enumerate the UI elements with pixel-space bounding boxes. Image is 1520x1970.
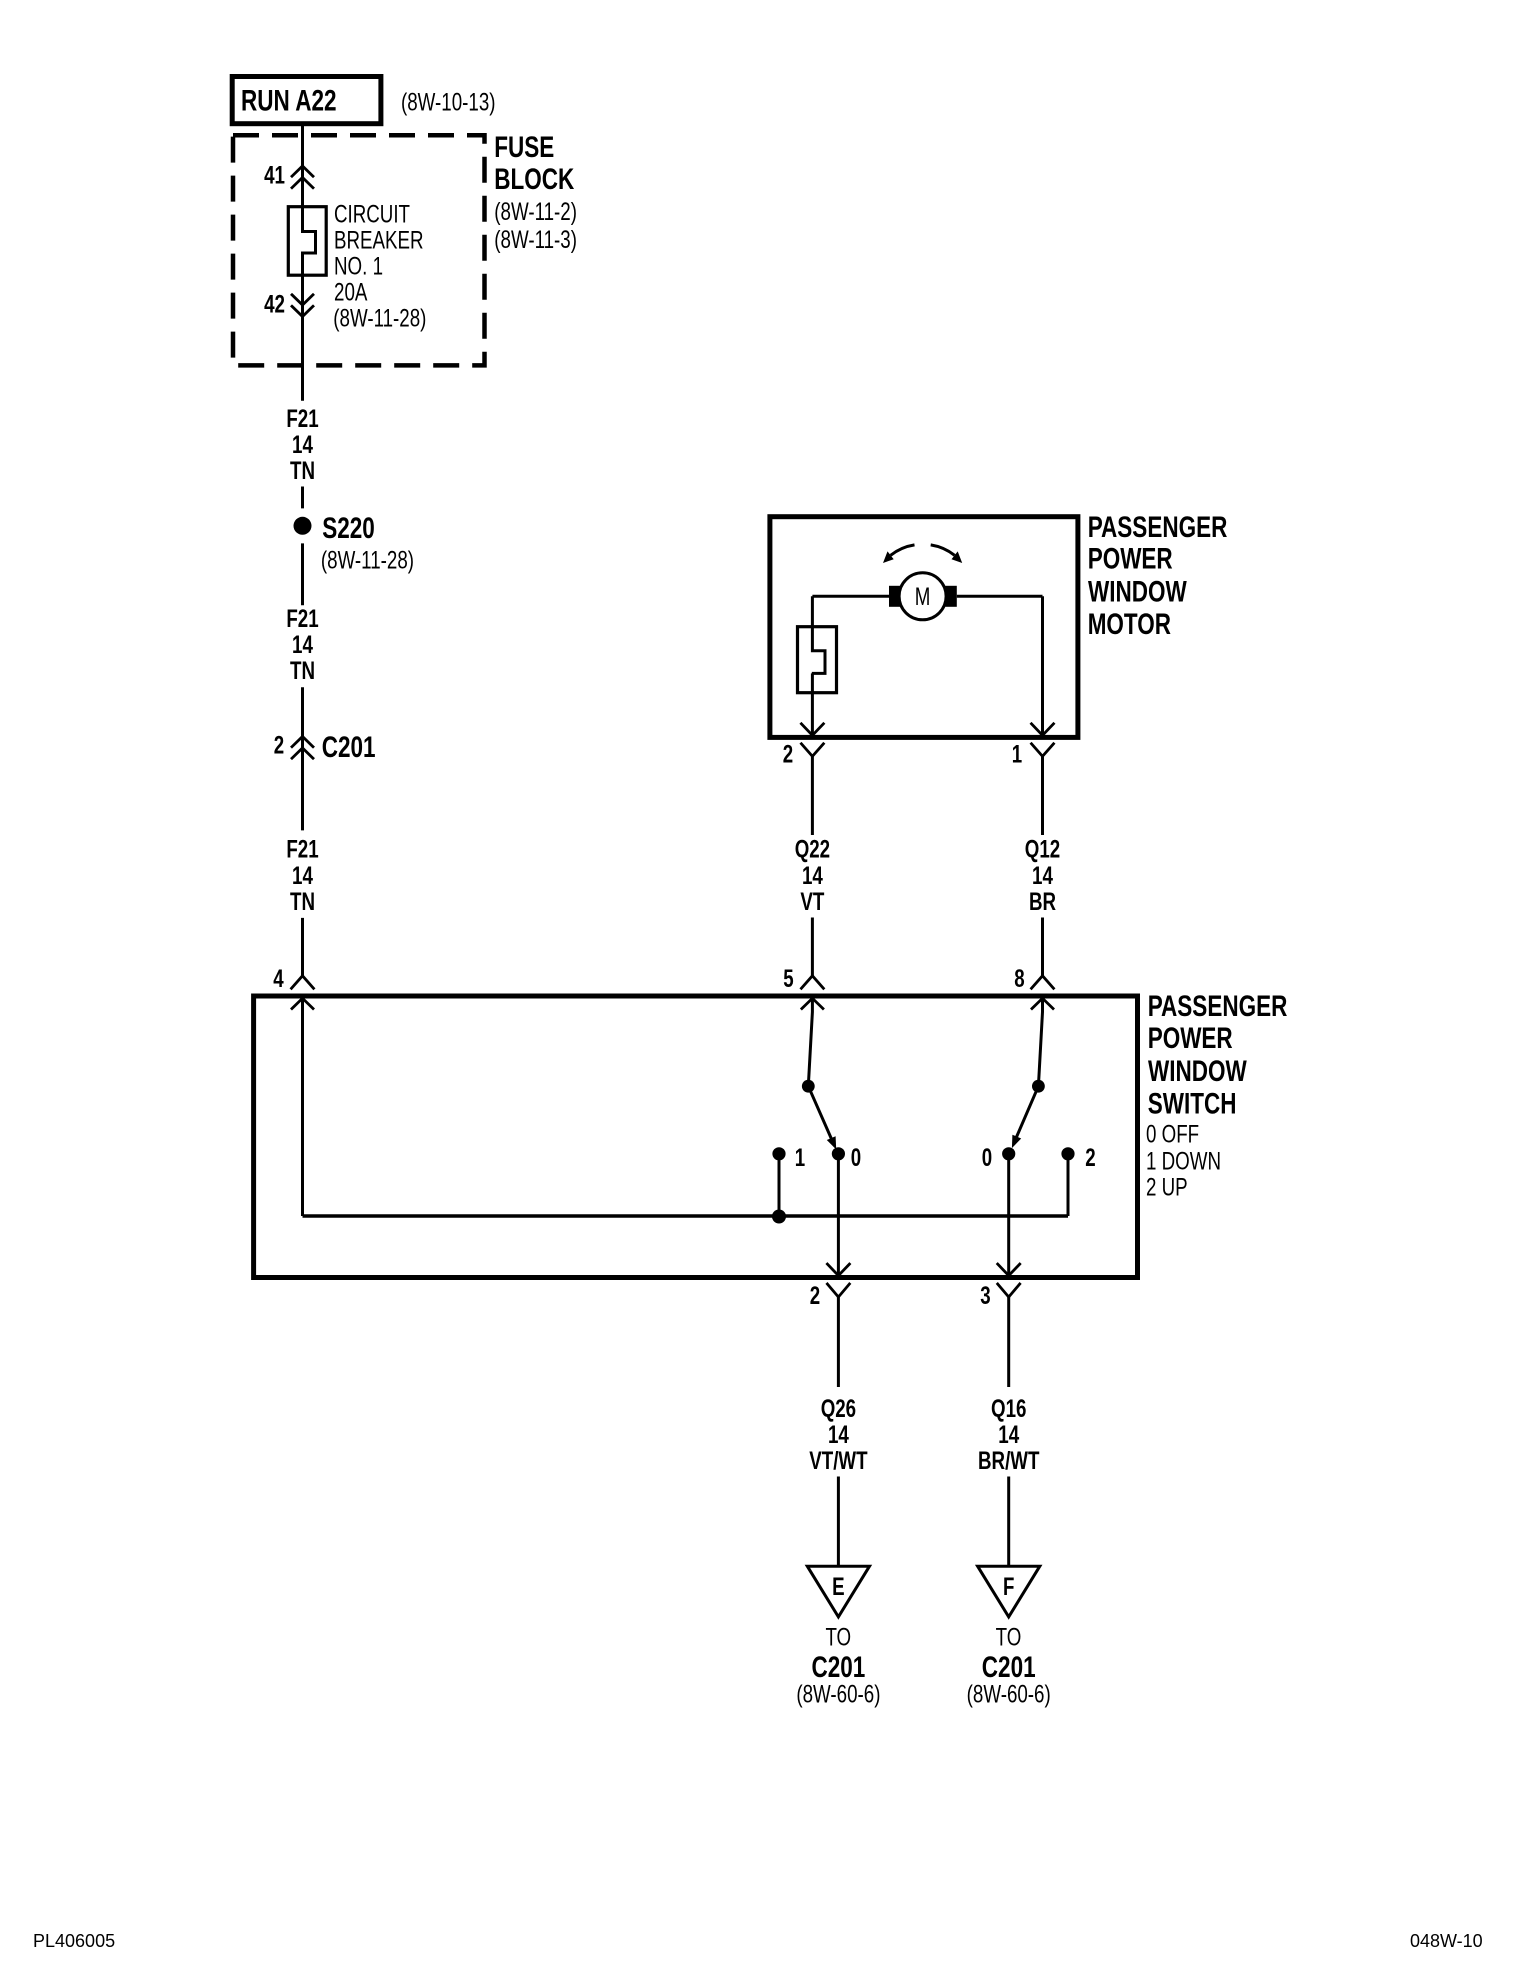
- svg-text:TO: TO: [825, 1624, 851, 1652]
- svg-text:2: 2: [1085, 1144, 1095, 1172]
- svg-text:0: 0: [851, 1144, 861, 1172]
- svg-text:Q22: Q22: [795, 836, 830, 864]
- svg-text:MOTOR: MOTOR: [1088, 608, 1172, 641]
- svg-text:M: M: [915, 583, 931, 611]
- svg-text:S220: S220: [322, 512, 375, 545]
- svg-text:(8W-11-28): (8W-11-28): [321, 547, 414, 575]
- svg-text:42: 42: [264, 290, 285, 318]
- svg-text:0: 0: [982, 1144, 992, 1172]
- svg-text:14: 14: [1032, 862, 1053, 890]
- svg-text:F21: F21: [286, 605, 318, 633]
- svg-text:4: 4: [273, 965, 283, 993]
- svg-text:0 OFF: 0 OFF: [1146, 1121, 1199, 1149]
- svg-text:C201: C201: [322, 731, 376, 764]
- svg-text:TN: TN: [290, 888, 315, 916]
- svg-text:14: 14: [292, 431, 313, 459]
- svg-text:14: 14: [998, 1421, 1019, 1449]
- svg-text:FUSE: FUSE: [494, 131, 554, 164]
- svg-text:14: 14: [292, 631, 313, 659]
- svg-text:F: F: [1003, 1573, 1014, 1601]
- svg-text:(8W-11-28): (8W-11-28): [333, 305, 426, 333]
- svg-text:14: 14: [828, 1421, 849, 1449]
- svg-text:5: 5: [783, 965, 793, 993]
- svg-text:(8W-10-13): (8W-10-13): [401, 88, 496, 116]
- svg-text:Q16: Q16: [991, 1395, 1026, 1423]
- svg-text:CIRCUIT: CIRCUIT: [334, 200, 410, 228]
- svg-text:TN: TN: [290, 457, 315, 485]
- svg-text:TN: TN: [290, 657, 315, 685]
- svg-text:14: 14: [292, 862, 313, 890]
- svg-text:BR: BR: [1029, 888, 1056, 916]
- svg-text:E: E: [832, 1573, 845, 1601]
- svg-text:BR/WT: BR/WT: [978, 1447, 1039, 1475]
- svg-text:(8W-60-6): (8W-60-6): [967, 1681, 1051, 1709]
- svg-text:NO. 1: NO. 1: [334, 253, 383, 281]
- svg-text:POWER: POWER: [1148, 1022, 1233, 1055]
- svg-text:WINDOW: WINDOW: [1088, 576, 1187, 609]
- svg-text:WINDOW: WINDOW: [1148, 1055, 1247, 1088]
- svg-text:14: 14: [802, 862, 823, 890]
- svg-text:F21: F21: [286, 836, 318, 864]
- svg-text:SWITCH: SWITCH: [1148, 1088, 1237, 1121]
- svg-text:RUN A22: RUN A22: [241, 84, 337, 117]
- svg-text:Q26: Q26: [821, 1395, 856, 1423]
- svg-text:Q12: Q12: [1025, 836, 1060, 864]
- svg-text:TO: TO: [996, 1624, 1022, 1652]
- svg-text:(8W-11-2): (8W-11-2): [494, 198, 577, 226]
- svg-text:(8W-60-6): (8W-60-6): [796, 1681, 880, 1709]
- svg-text:20A: 20A: [334, 279, 368, 307]
- svg-text:048W-10: 048W-10: [1410, 1931, 1483, 1951]
- svg-text:1: 1: [1012, 740, 1022, 768]
- svg-text:BREAKER: BREAKER: [334, 226, 424, 254]
- svg-text:2: 2: [783, 740, 793, 768]
- svg-text:C201: C201: [982, 1651, 1036, 1684]
- svg-text:(8W-11-3): (8W-11-3): [494, 226, 577, 254]
- svg-text:BLOCK: BLOCK: [494, 163, 574, 196]
- svg-text:PASSENGER: PASSENGER: [1088, 511, 1228, 544]
- svg-text:1 DOWN: 1 DOWN: [1146, 1148, 1221, 1176]
- svg-text:POWER: POWER: [1088, 543, 1173, 576]
- svg-text:3: 3: [980, 1282, 990, 1310]
- svg-text:1: 1: [795, 1144, 805, 1172]
- svg-text:2 UP: 2 UP: [1146, 1174, 1188, 1202]
- svg-text:F21: F21: [286, 405, 318, 433]
- svg-text:2: 2: [810, 1282, 820, 1310]
- svg-text:C201: C201: [812, 1651, 866, 1684]
- svg-text:VT/WT: VT/WT: [809, 1447, 867, 1475]
- svg-text:PL406005: PL406005: [33, 1931, 115, 1951]
- svg-text:41: 41: [264, 161, 285, 189]
- svg-text:PASSENGER: PASSENGER: [1148, 990, 1288, 1023]
- svg-text:8: 8: [1014, 965, 1024, 993]
- svg-text:2: 2: [274, 732, 284, 760]
- svg-text:VT: VT: [800, 888, 824, 916]
